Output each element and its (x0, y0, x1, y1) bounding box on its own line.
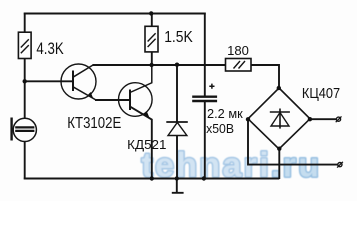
transistor Q2 base bar (129, 90, 131, 111)
resistor R2 1.5K body (145, 26, 158, 52)
capacitor C1 plates (192, 97, 217, 101)
svg-text:180: 180 (227, 43, 249, 58)
wire collector bus y=65 (93, 64, 226, 66)
transistor Q1 emitter line (73, 87, 96, 100)
node dot ground on rail (175, 176, 179, 180)
wire mic bottom to rail (24, 142, 26, 180)
node dot bridge right vertex (308, 117, 312, 121)
transistor Q2 emitter line (130, 107, 152, 179)
wire base of Q1 from node A (25, 80, 73, 82)
capacitor plus sign (209, 84, 214, 89)
wire R1 bottom to mic (24, 59, 26, 119)
resistor R2 slashes (148, 33, 156, 47)
wire bridge right vertex to output 1 (310, 118, 336, 120)
resistor R3 180 body (226, 59, 252, 72)
node dot bridge left vertex (246, 117, 250, 121)
wire Q1 emitter to Q2 base (95, 99, 129, 101)
terminal X2 circle (338, 163, 342, 167)
wire right vertical (top rail to capacitor) (204, 13, 206, 96)
transistor Q1 base bar (72, 71, 74, 92)
node dot capacitor on rail (202, 176, 206, 180)
diode VD1 cathode bar (166, 121, 188, 123)
microphone left bar (10, 118, 12, 141)
transistor Q1 collector line (73, 65, 93, 77)
node dot R2 bottom on bus (149, 63, 153, 67)
diode VD1 KD521 top wire (176, 64, 178, 122)
wire 180 to bridge top (251, 65, 279, 89)
resistor R3 slashes (234, 61, 246, 69)
diode VD1 bottom wire (176, 136, 178, 180)
bridge inner diode triangle (271, 113, 289, 127)
microphone plates (15, 127, 34, 130)
wire 1.5K bottom (151, 52, 153, 65)
wire bottom rail (24, 178, 279, 180)
transistor Q1 emitter arrow (88, 92, 94, 99)
terminal X1 circle (336, 117, 340, 121)
resistor R1 4.3K body (18, 32, 31, 58)
diode VD1 triangle (168, 123, 187, 136)
svg-text:4.3K: 4.3K (36, 39, 64, 58)
svg-text:2.2 мк: 2.2 мк (207, 106, 243, 121)
node dot diode top on bus (175, 62, 179, 66)
transistor Q1 circle (61, 64, 96, 99)
node dot top rail / R2 (149, 11, 153, 15)
bridge rectifier VD2 KTs407 diamond (248, 88, 310, 149)
wire 1.5K top (151, 14, 153, 27)
wire bridge bottom to rail (278, 149, 280, 179)
microphone BM1 circle (13, 118, 36, 141)
resistor R1 slashes (21, 39, 29, 53)
svg-text:КТ3102Е: КТ3102Е (67, 115, 121, 132)
node dot bridge top vertex (277, 86, 281, 90)
node dot base of Q1 (23, 79, 27, 83)
ground symbol (172, 179, 184, 193)
node dot Q2 emitter on rail (150, 176, 154, 180)
wire capacitor bottom to rail (204, 102, 206, 179)
terminal X2 slash (337, 162, 343, 168)
transistor Q2 collector line (130, 65, 152, 93)
transistor Q2 circle (119, 83, 153, 117)
wire left vertical top (rail to R1) (24, 13, 26, 33)
bridge inner diode bar (270, 111, 290, 113)
wire top rail (24, 13, 206, 15)
bridge inner diode axis line (279, 109, 281, 129)
svg-text:КЦ407: КЦ407 (302, 85, 340, 102)
node dot bridge bottom vertex (277, 147, 281, 151)
svg-text:КД521: КД521 (127, 138, 166, 152)
terminal X1 slash (336, 116, 342, 122)
transistor Q2 emitter arrow (144, 111, 150, 118)
wire bridge left vertex down and to output 2 (248, 119, 338, 165)
svg-text:1.5K: 1.5K (164, 29, 193, 46)
svg-text:х50В: х50В (206, 121, 234, 136)
